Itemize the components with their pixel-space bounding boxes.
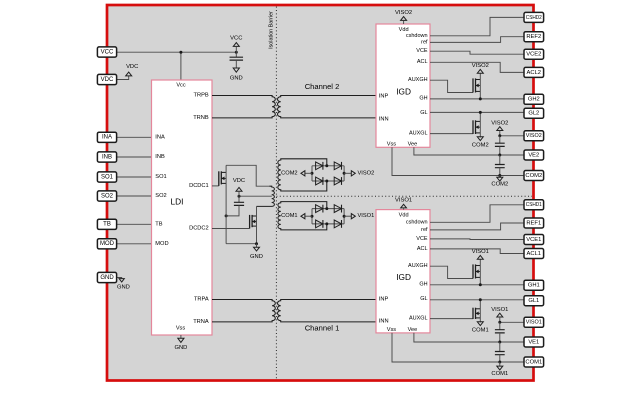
svg-text:Channel 1: Channel 1 xyxy=(305,324,340,333)
pin INB xyxy=(97,152,116,162)
svg-text:TB: TB xyxy=(103,222,111,228)
svg-text:IGD: IGD xyxy=(396,87,411,97)
wire TB pin to LDI xyxy=(117,223,152,225)
ground below VCC cap xyxy=(230,68,243,82)
pin COM1 xyxy=(524,357,544,367)
node rectifier left DC xyxy=(311,172,314,175)
svg-text:Vee: Vee xyxy=(408,142,418,148)
pin CSHD2 xyxy=(524,12,544,22)
svg-text:ref: ref xyxy=(421,40,428,46)
wire VISO1 tap xyxy=(500,321,524,323)
pin CSHD1 xyxy=(524,200,544,210)
wire rectifier top row xyxy=(312,165,344,167)
pin VE1 xyxy=(524,337,544,347)
wire rectifier left column xyxy=(311,166,313,181)
wire AUXGH jog xyxy=(430,80,473,92)
svg-text:GL: GL xyxy=(420,110,427,116)
wire Q2 drain-source rail xyxy=(256,206,258,243)
svg-text:Vee: Vee xyxy=(408,327,418,333)
transformer T2 primary (TRPB/TRNB) xyxy=(212,96,275,118)
svg-text:VDC: VDC xyxy=(126,64,138,70)
svg-text:COM2: COM2 xyxy=(525,173,542,179)
wire DCDC bottom rail xyxy=(226,243,256,245)
node VE1 junction xyxy=(498,341,501,344)
IGD block U2 (channel 2) xyxy=(376,24,430,147)
transformer T1 secondary (INP/INN ch1) xyxy=(278,300,377,322)
svg-text:ACL: ACL xyxy=(417,59,428,65)
pin VCC xyxy=(97,47,116,57)
svg-text:VCC: VCC xyxy=(230,36,242,42)
svg-text:Vss: Vss xyxy=(387,142,397,148)
svg-text:SO2: SO2 xyxy=(155,193,166,199)
wire VCC net xyxy=(117,51,237,53)
node rectifier right DC xyxy=(343,215,346,218)
svg-text:GL2: GL2 xyxy=(528,111,539,117)
capacitor C1b xyxy=(495,342,505,362)
node COM2 junction xyxy=(498,174,501,177)
wire SO1 pin to LDI xyxy=(117,176,152,178)
transistor Q1 (DCDC1 MOSFET) xyxy=(212,171,226,186)
node GL2 junction xyxy=(479,111,482,114)
capacitor C2a xyxy=(495,136,505,155)
diode D2 xyxy=(334,162,341,170)
svg-text:GH: GH xyxy=(419,282,427,288)
node VE2 junction xyxy=(498,154,501,157)
pin TB xyxy=(97,219,116,229)
svg-text:INA: INA xyxy=(102,135,112,141)
svg-text:VISO1: VISO1 xyxy=(358,213,375,219)
svg-text:VE1: VE1 xyxy=(528,339,539,345)
svg-text:TRNB: TRNB xyxy=(193,115,209,121)
pin VDC xyxy=(97,74,116,84)
wire Vee to VE1 xyxy=(414,333,524,342)
IGD U3 pin labels xyxy=(379,213,428,333)
capacitor VDC bypass xyxy=(226,196,244,216)
svg-text:VCE: VCE xyxy=(416,48,428,54)
wire SO2 pin to LDI xyxy=(117,195,152,197)
wire INB pin to LDI xyxy=(117,156,152,158)
ground COM1 cap chain xyxy=(491,362,508,377)
power symbol VDC xyxy=(126,64,139,76)
svg-text:REF2: REF2 xyxy=(526,34,541,40)
ground COM2 below Q2L xyxy=(472,137,489,149)
pin VE2 xyxy=(524,150,544,160)
wire GL to GL1 xyxy=(430,299,524,301)
svg-text:VISO1: VISO1 xyxy=(526,320,542,326)
node VISO2 junction xyxy=(498,134,501,137)
diode D4 xyxy=(334,177,341,185)
wire GL to GL2 xyxy=(430,111,524,113)
transistor Q1L (AUXGL clamp) xyxy=(473,300,480,323)
pin MOD xyxy=(97,239,116,249)
svg-text:MOD: MOD xyxy=(100,241,115,247)
wire DCDC top rail xyxy=(226,165,269,186)
pin GL1 xyxy=(524,296,544,306)
pin GND xyxy=(97,272,116,282)
pin SO2 xyxy=(97,191,116,201)
svg-text:GH2: GH2 xyxy=(528,97,540,103)
svg-text:INP: INP xyxy=(379,94,389,100)
svg-text:cshdown: cshdown xyxy=(406,219,428,225)
pin REF2 xyxy=(524,32,544,42)
svg-text:GND: GND xyxy=(230,76,243,82)
power symbol VISO2 above Q2H xyxy=(472,63,489,73)
pin ACL2 xyxy=(524,67,544,77)
node rectifier right DC xyxy=(343,172,346,175)
pin VCE1 xyxy=(524,235,544,245)
svg-text:VISO2: VISO2 xyxy=(358,170,375,176)
transformer T3 secondary winding COM1 xyxy=(278,202,327,230)
wire MOD pin to LDI xyxy=(117,243,152,245)
diode D3 xyxy=(316,177,323,185)
svg-text:INP: INP xyxy=(379,296,389,302)
svg-text:SO1: SO1 xyxy=(155,174,166,180)
wire VDC stub xyxy=(117,76,129,80)
wire VISO2 tap xyxy=(500,135,524,137)
IC boundary frame xyxy=(107,5,534,381)
wire AUXGH jog xyxy=(430,266,473,278)
wire GND pin stub xyxy=(117,277,122,280)
isolation barrier label xyxy=(268,11,274,49)
svg-text:TRPA: TRPA xyxy=(194,297,209,303)
svg-text:GND: GND xyxy=(174,345,187,351)
svg-text:SO1: SO1 xyxy=(101,174,114,180)
pin INA xyxy=(97,132,116,142)
node rectifier bottom AC xyxy=(325,222,328,225)
transformer T1 primary (TRPA/TRNA) xyxy=(212,300,275,322)
ground COM1 below Q1L xyxy=(472,322,489,334)
svg-text:COM2: COM2 xyxy=(281,170,297,176)
node VDC center-tap junction xyxy=(238,195,241,198)
diode D4 xyxy=(334,220,341,228)
svg-text:VCE1: VCE1 xyxy=(526,237,541,243)
svg-text:VCE2: VCE2 xyxy=(526,52,541,58)
node rectifier top AC xyxy=(325,207,328,210)
wire ref to REF2 xyxy=(430,37,524,43)
svg-text:GL: GL xyxy=(420,296,427,302)
svg-text:VISO1: VISO1 xyxy=(472,249,489,255)
wire INA pin to LDI xyxy=(117,136,152,138)
power symbol VISO2 at U2 Vdd xyxy=(395,10,412,24)
node rectifier left DC xyxy=(311,215,314,218)
power symbol VISO1 cap chain xyxy=(491,307,508,322)
svg-text:VISO2: VISO2 xyxy=(491,121,508,127)
channel 2 label xyxy=(305,82,340,91)
wire VCE to VCE1 xyxy=(430,238,524,241)
svg-text:VDC: VDC xyxy=(101,77,114,83)
pin REF1 xyxy=(524,218,544,228)
pin GH2 xyxy=(524,94,544,104)
pin VISO1 xyxy=(524,317,544,327)
IGD U2 pin labels xyxy=(379,27,428,148)
diode D1 xyxy=(316,205,323,213)
capacitor C2b xyxy=(495,155,505,176)
svg-text:SO2: SO2 xyxy=(101,193,114,199)
svg-text:COM2: COM2 xyxy=(472,142,489,148)
power symbol VDC center-tap xyxy=(233,178,245,196)
svg-text:VCC: VCC xyxy=(101,49,114,55)
svg-text:LDI: LDI xyxy=(171,197,184,207)
wire ref to REF1 xyxy=(430,223,524,230)
transformer T3 primary winding xyxy=(257,186,275,206)
diode D3 xyxy=(316,220,323,228)
svg-text:INB: INB xyxy=(155,154,165,160)
svg-text:Isolation Barrier: Isolation Barrier xyxy=(268,11,274,49)
net label COM1 xyxy=(281,213,312,219)
svg-text:GH: GH xyxy=(419,96,427,102)
svg-text:VISO2: VISO2 xyxy=(526,133,542,139)
node GH1 junction xyxy=(479,283,482,286)
svg-text:VCE: VCE xyxy=(416,236,428,242)
wire AUXGL to gate xyxy=(430,133,473,135)
node GL1 junction xyxy=(479,298,482,301)
svg-text:INN: INN xyxy=(379,318,389,324)
transistor Q2 (DCDC2 MOSFET) xyxy=(212,215,257,229)
svg-text:ACL: ACL xyxy=(417,246,428,252)
svg-text:AUXGL: AUXGL xyxy=(409,131,428,137)
node rectifier bottom AC xyxy=(325,180,328,183)
svg-text:VISO1: VISO1 xyxy=(491,307,508,313)
pin GH1 xyxy=(524,280,544,290)
power symbol VISO2 cap chain xyxy=(491,121,508,136)
node cap return junction xyxy=(225,214,228,217)
ground COM2 cap chain xyxy=(491,176,508,188)
wire Vss to COM2 xyxy=(392,147,524,175)
svg-text:DCDC2: DCDC2 xyxy=(189,226,209,232)
pin VCE2 xyxy=(524,49,544,59)
svg-text:VISO2: VISO2 xyxy=(395,10,412,16)
wire cshdown to CSHD1 xyxy=(430,205,524,223)
svg-text:IGD: IGD xyxy=(396,272,411,282)
svg-text:COM1: COM1 xyxy=(525,359,542,365)
power symbol VISO1 above Q1H xyxy=(472,249,489,259)
svg-text:REF1: REF1 xyxy=(526,220,541,226)
svg-text:VISO1: VISO1 xyxy=(395,198,412,204)
svg-text:cshdown: cshdown xyxy=(406,33,428,39)
node rectifier top AC xyxy=(325,164,328,167)
svg-text:MOD: MOD xyxy=(155,241,168,247)
isolation barrier horizontal dotted line xyxy=(276,195,532,197)
svg-text:VISO2: VISO2 xyxy=(472,63,489,69)
pin COM2 xyxy=(524,171,544,181)
svg-text:VE2: VE2 xyxy=(528,152,539,158)
wire AUXGL to gate xyxy=(430,318,473,320)
LDI block U1 xyxy=(152,80,213,335)
svg-text:Vss: Vss xyxy=(387,327,397,333)
svg-text:AUXGH: AUXGH xyxy=(408,263,428,269)
node DCDC ground junction xyxy=(255,242,258,245)
svg-text:Vss: Vss xyxy=(176,326,186,332)
wire T3 center tap xyxy=(239,195,272,197)
svg-text:Channel 2: Channel 2 xyxy=(305,82,340,91)
transistor Q1H (AUXGH clamp) xyxy=(473,259,480,285)
pin GL2 xyxy=(524,108,544,118)
svg-text:TRNA: TRNA xyxy=(193,319,209,325)
svg-text:ref: ref xyxy=(421,227,428,233)
svg-text:GND: GND xyxy=(117,284,130,290)
net label COM2 xyxy=(281,170,312,176)
svg-text:GND: GND xyxy=(250,254,263,260)
capacitor C1a xyxy=(495,322,505,342)
wire rectifier right column xyxy=(343,166,345,181)
wire rectifier left column xyxy=(311,209,313,224)
pin VISO2 xyxy=(524,131,544,141)
IGD block U3 (channel 1) xyxy=(376,210,430,333)
isolation barrier vertical dotted line xyxy=(275,7,277,379)
wire GH to GH1 xyxy=(430,284,524,286)
node COM1 junction xyxy=(498,361,501,364)
LDI pin labels xyxy=(155,82,209,331)
power symbol VISO1 at U3 Vdd xyxy=(395,198,412,210)
diode D2 xyxy=(334,205,341,213)
svg-text:INN: INN xyxy=(379,116,389,122)
svg-text:INB: INB xyxy=(102,154,112,160)
wire ACL to ACL2 xyxy=(430,62,524,72)
wire VCE to VCE2 xyxy=(430,51,524,54)
svg-text:ACL1: ACL1 xyxy=(527,251,542,257)
wire cshdown to CSHD2 xyxy=(430,17,524,35)
pin SO1 xyxy=(97,172,116,182)
svg-text:ACL2: ACL2 xyxy=(527,70,542,76)
pin ACL1 xyxy=(524,249,544,259)
svg-text:CSHD2: CSHD2 xyxy=(526,15,542,21)
svg-text:CSHD1: CSHD1 xyxy=(526,202,542,208)
svg-text:GH1: GH1 xyxy=(528,283,540,289)
node GH2 junction xyxy=(479,97,482,100)
node VCC-LDI junction xyxy=(179,51,182,54)
wire rectifier top row xyxy=(312,208,344,210)
ground DCDC xyxy=(250,244,263,261)
diode D1 xyxy=(316,162,323,170)
svg-text:VDC: VDC xyxy=(233,178,245,184)
net label VISO2 xyxy=(344,170,374,176)
wire rectifier right column xyxy=(343,209,345,224)
wire rectifier bottom row xyxy=(312,180,344,182)
transistor Q2L (AUXGL clamp) xyxy=(473,112,480,137)
svg-text:TRPB: TRPB xyxy=(194,93,209,99)
transistor Q2H (AUXGH clamp) xyxy=(473,73,480,99)
wire Vss to COM1 xyxy=(392,333,524,362)
svg-text:Vdd: Vdd xyxy=(399,213,409,219)
svg-text:GND: GND xyxy=(100,275,114,281)
svg-text:Vcc: Vcc xyxy=(176,82,186,88)
ground below LDI Vss xyxy=(174,335,187,351)
capacitor VCC bypass xyxy=(230,52,244,68)
svg-text:COM1: COM1 xyxy=(491,371,508,377)
svg-text:AUXGH: AUXGH xyxy=(408,77,428,83)
node VISO1 junction xyxy=(498,321,501,324)
svg-text:COM1: COM1 xyxy=(472,327,489,333)
svg-text:COM2: COM2 xyxy=(491,182,508,188)
wire rectifier bottom row xyxy=(312,223,344,225)
wire Q1 drain-source rail xyxy=(225,165,227,243)
svg-text:GL1: GL1 xyxy=(528,298,539,304)
svg-text:COM1: COM1 xyxy=(281,213,297,219)
wire Vee to VE2 xyxy=(414,147,524,155)
transformer T3 secondary winding COM2 xyxy=(278,159,327,191)
svg-text:TB: TB xyxy=(155,221,162,227)
wire LDI Vcc stub xyxy=(180,52,182,80)
ground at GND pin xyxy=(117,279,130,291)
transformer T2 secondary (INP/INN ch2) xyxy=(278,96,377,118)
wire ACL to ACL1 xyxy=(430,249,524,254)
power symbol VCC xyxy=(230,36,242,53)
node VCC-cap junction xyxy=(235,51,238,54)
svg-text:DCDC1: DCDC1 xyxy=(189,183,209,189)
svg-text:AUXGL: AUXGL xyxy=(409,316,428,322)
svg-text:INA: INA xyxy=(155,134,165,140)
wire GH to GH2 xyxy=(430,98,524,100)
net label VISO1 xyxy=(344,213,374,219)
channel 1 label xyxy=(305,324,340,333)
